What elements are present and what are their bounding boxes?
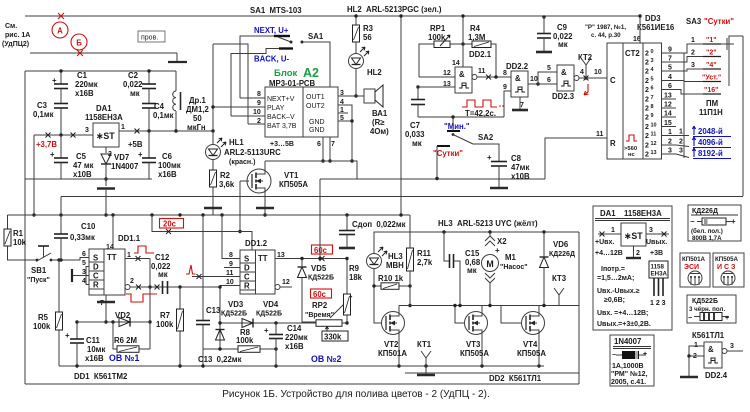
svg-text:C6: C6	[162, 152, 173, 161]
svg-text:220мк: 220мк	[285, 333, 308, 342]
svg-text:1158ЕН3А: 1158ЕН3А	[85, 113, 123, 122]
svg-text:6: 6	[651, 86, 654, 92]
svg-text:М1: М1	[505, 253, 516, 262]
info box DA1 1158EN3A	[593, 206, 672, 330]
svg-text:И С З: И С З	[717, 264, 736, 271]
svg-text:VD5: VD5	[311, 264, 327, 273]
svg-text:10k: 10k	[13, 238, 27, 247]
svg-text:1N4007: 1N4007	[111, 162, 138, 171]
speaker BA1	[364, 89, 375, 103]
svg-text:11: 11	[226, 270, 234, 277]
wire: power box bottom rail	[25, 178, 152, 180]
svg-text:2: 2	[645, 69, 649, 76]
svg-text:5: 5	[651, 77, 654, 83]
wire: top section bottom rail	[61, 196, 743, 198]
resistor R3	[353, 25, 360, 42]
svg-text:Рисунок 1Б. Устройство для пол: Рисунок 1Б. Устройство для полива цветов…	[222, 389, 489, 400]
svg-text:мк: мк	[467, 266, 477, 275]
svg-text:8: 8	[229, 252, 233, 259]
capacitor C15	[444, 232, 449, 261]
svg-text:3: 3	[691, 62, 695, 69]
svg-text:(бел. пол.): (бел. пол.)	[691, 228, 723, 235]
VT1 gate wire from DD1.1	[239, 181, 241, 232]
capacitor Cdop	[346, 215, 348, 231]
svg-text:NEXT, U+: NEXT, U+	[254, 26, 289, 35]
svg-text:Х2: Х2	[497, 237, 507, 246]
svg-text:SA2: SA2	[478, 133, 494, 142]
svg-text:КТ2: КТ2	[578, 53, 593, 62]
svg-text:1N4007: 1N4007	[614, 337, 641, 346]
svg-text:BAT 3,7В: BAT 3,7В	[267, 123, 297, 130]
svg-text:TT: TT	[107, 253, 117, 262]
capacitor C5	[60, 135, 62, 158]
svg-text:Б: Б	[76, 38, 82, 47]
svg-text:КП505А: КП505А	[460, 349, 489, 358]
svg-text:Iпотр.=: Iпотр.=	[601, 266, 625, 273]
wire: +3.7V down to 0V bus	[33, 135, 35, 215]
svg-text:DD1.2: DD1.2	[245, 239, 268, 248]
svg-text:См.: См.	[5, 23, 17, 30]
svg-text:+3В: +3В	[650, 250, 663, 257]
svg-text:2: 2	[645, 133, 649, 140]
svg-text:КП501А: КП501А	[378, 349, 407, 358]
svg-text:RP1: RP1	[430, 24, 446, 33]
svg-text:NEXT+V: NEXT+V	[267, 96, 295, 103]
DA1 pin2 lead	[105, 146, 107, 148]
svg-text:C3: C3	[37, 101, 48, 110]
svg-text:2048-й: 2048-й	[698, 127, 723, 136]
svg-text:"2": "2"	[706, 50, 717, 57]
capacitor C1	[60, 71, 62, 84]
svg-text:=1,5…2мА;: =1,5…2мА;	[597, 275, 634, 282]
svg-text:15: 15	[664, 120, 672, 127]
svg-text:2: 2	[645, 51, 649, 58]
svg-text:S: S	[93, 254, 98, 263]
svg-text:1 2 3: 1 2 3	[650, 300, 666, 307]
svg-text:3: 3	[730, 343, 734, 350]
svg-text:1: 1	[668, 129, 672, 136]
DD1.2 C input	[192, 276, 240, 278]
svg-text:2: 2	[645, 124, 649, 131]
svg-text:100k: 100k	[156, 320, 174, 329]
svg-text:9: 9	[229, 261, 233, 268]
svg-text:DA1: DA1	[96, 104, 112, 113]
resistor R6	[113, 322, 117, 349]
svg-text:3,6k: 3,6k	[219, 180, 235, 189]
svg-text:10: 10	[530, 76, 538, 83]
svg-text:BACK–V: BACK–V	[267, 114, 295, 121]
svg-text:C14: C14	[287, 324, 302, 333]
DD1.2 R input	[220, 285, 240, 287]
resistor R5	[58, 260, 60, 312]
ground symbol under VD7	[97, 187, 115, 190]
svg-text:12: 12	[282, 279, 290, 286]
svg-text:2: 2	[645, 78, 649, 85]
node A circled letter	[52, 22, 68, 38]
svg-text:+: +	[138, 150, 143, 159]
svg-text:C4: C4	[154, 102, 165, 111]
regulator DA1 box	[93, 123, 119, 147]
svg-text:х16В: х16В	[85, 354, 104, 363]
svg-text:мк: мк	[130, 89, 140, 98]
svg-text:330k: 330k	[324, 333, 342, 342]
svg-text:&: &	[459, 70, 465, 79]
svg-text:R6 2М: R6 2М	[114, 336, 137, 345]
svg-text:R3: R3	[363, 24, 374, 33]
svg-text:14: 14	[664, 111, 672, 118]
svg-text:9: 9	[257, 100, 261, 107]
svg-text:9: 9	[668, 47, 672, 54]
svg-text:2: 2	[679, 139, 683, 146]
svg-text:"4": "4"	[706, 62, 717, 69]
svg-text:VD7: VD7	[114, 153, 129, 162]
svg-text:7: 7	[331, 141, 335, 148]
svg-text:HL3 ARL-5213 UYC (жёлт): HL3 ARL-5213 UYC (жёлт)	[438, 219, 538, 228]
svg-text:12: 12	[664, 102, 672, 109]
DD1.2 S input wire	[222, 215, 240, 259]
svg-text:К561ИЕ16: К561ИЕ16	[637, 23, 675, 32]
resistor R10	[373, 269, 375, 287]
svg-text:КТ1: КТ1	[417, 340, 432, 349]
wire: feedback line to SA2 Min	[418, 116, 504, 118]
svg-text:R10 1k: R10 1k	[378, 274, 404, 283]
svg-text:C1: C1	[77, 71, 88, 80]
svg-text:1158ЕН3А: 1158ЕН3А	[624, 209, 662, 218]
svg-text:Uвых.=+3±0,2В.: Uвых.=+3±0,2В.	[597, 321, 651, 328]
svg-text:OUT1: OUT1	[306, 94, 325, 101]
switch SA1 throw BACK	[279, 47, 293, 49]
SA3 feed wires from counter	[676, 44, 703, 53]
svg-text:C15: C15	[465, 249, 480, 258]
svg-text:C10: C10	[81, 222, 96, 231]
svg-text:8: 8	[257, 91, 261, 98]
capacitor C11	[76, 322, 78, 339]
svg-text:R1: R1	[13, 229, 24, 238]
svg-text:3: 3	[649, 227, 653, 234]
svg-text:R11: R11	[417, 249, 432, 258]
wire: main 0V bus	[8, 214, 411, 216]
wire HL2 to OUT1 line	[355, 69, 357, 97]
SA3 wiper	[721, 43, 734, 45]
svg-text:6: 6	[547, 77, 551, 84]
info box KP505A pinout	[713, 253, 744, 287]
wire: VD2 node row	[77, 321, 150, 323]
svg-text:2: 2	[645, 97, 649, 104]
wire: DD1.2 out13 riser to DD3 reset line	[319, 179, 321, 259]
wire: power box left edge down to frame bottom	[24, 71, 26, 384]
value box 330k	[325, 327, 328, 332]
svg-text:10: 10	[651, 123, 657, 129]
svg-text:≥0,6В;: ≥0,6В;	[604, 297, 625, 304]
svg-text:1А,1000В: 1А,1000В	[612, 363, 644, 370]
svg-text:(R≥: (R≥	[372, 118, 385, 127]
svg-text:х10В: х10В	[511, 172, 530, 181]
svg-text:"Сутки": "Сутки"	[704, 17, 734, 26]
measure X on +3.7V rail	[46, 133, 51, 138]
svg-text:2005, с.41.: 2005, с.41.	[611, 379, 646, 386]
svg-text:6: 6	[668, 83, 672, 90]
svg-text:2: 2	[645, 115, 649, 122]
svg-text:5: 5	[82, 260, 86, 267]
svg-text:D: D	[93, 263, 99, 272]
svg-text:0,033: 0,033	[405, 130, 425, 139]
transistor VT3 (KP505A)	[465, 312, 488, 335]
red waveform T=42,2s	[462, 100, 497, 107]
svg-text:8: 8	[651, 104, 654, 110]
wire: bottom 0V rail	[59, 365, 544, 367]
svg-text:50: 50	[193, 114, 202, 123]
svg-text:4Ом): 4Ом)	[370, 127, 389, 136]
svg-text:DA1: DA1	[600, 209, 616, 218]
svg-text:7: 7	[668, 56, 672, 63]
svg-text:МВН: МВН	[386, 261, 404, 270]
svg-text:∗ST: ∗ST	[624, 231, 643, 241]
svg-text:х16В: х16В	[158, 170, 177, 179]
wire: power box top	[25, 70, 176, 72]
svg-text:PLAY: PLAY	[267, 105, 285, 112]
svg-text:"РМ" №12,: "РМ" №12,	[611, 370, 648, 378]
svg-text:DD2.2: DD2.2	[506, 62, 529, 71]
LED HL3	[374, 232, 410, 254]
svg-text:11: 11	[596, 131, 604, 138]
svg-text:мк: мк	[558, 40, 568, 49]
svg-text:х10В: х10В	[73, 170, 92, 179]
node B circled letter	[71, 34, 87, 50]
svg-text:C: C	[93, 272, 99, 281]
svg-text:20с: 20с	[163, 220, 177, 229]
svg-text:1158: 1158	[651, 264, 665, 271]
svg-text:+3…5В: +3…5В	[270, 141, 294, 148]
svg-text:"16": "16"	[704, 87, 718, 94]
svg-text:2: 2	[668, 139, 672, 146]
svg-text:DD3: DD3	[645, 14, 661, 23]
svg-text:SA1 MTS-103: SA1 MTS-103	[250, 6, 302, 15]
svg-text:+: +	[52, 76, 57, 85]
svg-text:220мк: 220мк	[75, 80, 98, 89]
inductor Dr1 choke on right edge	[175, 71, 177, 91]
wire: +5V rail from DA1 pin1	[119, 130, 213, 132]
svg-text:3 чёрн. пол.: 3 чёрн. пол.	[689, 306, 725, 313]
svg-text:2,7k: 2,7k	[417, 258, 433, 267]
svg-text:&: &	[561, 68, 567, 77]
capacitor C4	[142, 103, 156, 105]
svg-text:4096-й: 4096-й	[698, 138, 723, 147]
svg-text:х16В: х16В	[75, 89, 94, 98]
svg-text:C12: C12	[155, 253, 170, 262]
outer frame bottom	[25, 383, 579, 385]
svg-text:КД522Б: КД522Б	[256, 311, 282, 318]
svg-text:1: 1	[691, 37, 695, 44]
pump box bottom / right edge	[405, 372, 579, 374]
svg-text:М: М	[486, 259, 493, 269]
node A marker (red X)	[58, 13, 64, 19]
wire: HL1 feed / PLAY tie	[213, 44, 248, 124]
svg-text:C13 0,22мк: C13 0,22мк	[198, 355, 242, 364]
wire: line A (+3,7V feed from fig.1A)	[25, 15, 640, 17]
svg-text:8192-й: 8192-й	[698, 149, 723, 158]
svg-text:ДМ1,2: ДМ1,2	[186, 105, 210, 114]
gate DD2.3	[557, 65, 574, 91]
label: prov. (wire probe)	[138, 31, 165, 42]
node B marker (red X)	[77, 50, 83, 56]
diode VD2	[119, 318, 130, 327]
svg-text:C2: C2	[128, 71, 139, 80]
VT1 source to ground	[264, 193, 266, 208]
DA1 package drawing	[649, 261, 668, 278]
timing box 20s	[160, 219, 184, 229]
wire: +3.7V rail into DA1 pin3	[34, 134, 93, 136]
svg-text:КД522Б: КД522Б	[308, 275, 334, 282]
svg-text:10мк: 10мк	[87, 345, 105, 354]
capacitor C10	[60, 197, 62, 235]
svg-text:R4: R4	[470, 24, 481, 33]
svg-text:C: C	[610, 76, 616, 85]
capacitor C6	[148, 131, 150, 158]
svg-text:0: 0	[651, 49, 654, 55]
svg-text:BACK, U-: BACK, U-	[254, 55, 289, 64]
diode VD5	[301, 259, 303, 267]
svg-text:DD2.1: DD2.1	[469, 50, 492, 59]
svg-text:VD4: VD4	[263, 300, 279, 309]
svg-text:VT4: VT4	[523, 340, 538, 349]
svg-text:2: 2	[130, 278, 134, 285]
svg-text:+: +	[643, 351, 647, 358]
wire HL3 node to VT2 gate	[374, 286, 382, 323]
svg-text:D: D	[244, 264, 250, 273]
svg-text:2: 2	[691, 50, 695, 57]
svg-text:"Насос": "Насос"	[500, 264, 528, 271]
svg-text:R: R	[610, 139, 616, 148]
svg-text:1: 1	[127, 252, 131, 259]
svg-text:18k: 18k	[349, 273, 363, 282]
svg-text:2: 2	[645, 106, 649, 113]
switch SA1 common and blade	[290, 41, 293, 44]
svg-text:+4…12В: +4…12В	[595, 250, 623, 257]
wire: line B	[30, 52, 177, 54]
svg-text:6: 6	[82, 251, 86, 258]
switch SA1 throw NEXT	[274, 35, 290, 37]
DD1.2 D input stub	[224, 267, 240, 269]
svg-text:2: 2	[645, 87, 649, 94]
svg-text:11: 11	[651, 132, 657, 138]
svg-text:"Мин.": "Мин."	[444, 122, 470, 131]
svg-text:ЭСИ: ЭСИ	[684, 264, 699, 271]
svg-text:60с: 60с	[314, 246, 328, 255]
svg-text:VD3: VD3	[228, 300, 244, 309]
capacitor C8	[491, 161, 507, 163]
svg-text:SA1: SA1	[308, 32, 324, 41]
svg-text:6: 6	[317, 141, 321, 148]
svg-text:−: −	[688, 315, 692, 322]
svg-text:+: +	[264, 326, 269, 335]
svg-text:VD2: VD2	[115, 311, 131, 320]
svg-text:11: 11	[478, 68, 486, 75]
svg-text:КД226Д: КД226Д	[692, 208, 718, 215]
svg-text:8: 8	[503, 70, 507, 77]
svg-text:КП501А: КП501А	[682, 256, 706, 263]
resistor R7	[178, 285, 181, 288]
svg-text:(красн.): (красн.)	[229, 159, 255, 166]
svg-text:C9: C9	[557, 23, 568, 32]
svg-text:CT2: CT2	[625, 49, 640, 58]
svg-text:3: 3	[668, 148, 672, 155]
svg-text:13: 13	[277, 252, 285, 259]
R2 to ground	[212, 187, 214, 207]
transistor VT1 (KP505A)	[264, 161, 266, 170]
diode VD4 on row	[220, 322, 316, 324]
push button SB1	[36, 259, 39, 262]
svg-text:OUT2: OUT2	[306, 103, 325, 110]
wire: A-rail feed down mid sheet	[400, 16, 402, 215]
svg-text:5: 5	[547, 65, 551, 72]
potentiometer RP2	[316, 320, 342, 327]
svg-text:&: &	[515, 74, 521, 83]
svg-text:0,1мк: 0,1мк	[33, 110, 54, 119]
svg-text:100k: 100k	[33, 322, 51, 331]
diode VD7	[105, 147, 107, 153]
junction C2 top	[147, 69, 150, 72]
svg-text:ARL2-5113URC: ARL2-5113URC	[224, 148, 281, 157]
svg-text:C11: C11	[86, 336, 101, 345]
svg-text:GND: GND	[309, 127, 325, 134]
svg-text:с. 44, р.30: с. 44, р.30	[591, 32, 621, 39]
lower taps 2048/4096/8192	[676, 135, 689, 137]
DD2.1 output pin 11	[472, 75, 477, 80]
svg-text:100k: 100k	[236, 336, 254, 345]
svg-text:ОВ №2: ОВ №2	[311, 354, 341, 364]
svg-text:рис. 1А: рис. 1А	[5, 32, 30, 39]
svg-text:3: 3	[679, 148, 683, 155]
svg-text:R: R	[244, 282, 250, 291]
junction VD7 / box bottom	[104, 177, 107, 180]
svg-text:(УдПЦ2): (УдПЦ2)	[2, 41, 29, 48]
svg-text:КП505А: КП505А	[517, 349, 546, 358]
svg-text:VT3: VT3	[466, 340, 481, 349]
svg-text:12: 12	[443, 70, 451, 77]
svg-text:R2: R2	[220, 171, 231, 180]
svg-text:56: 56	[363, 33, 372, 42]
svg-text:+3,7В: +3,7В	[36, 140, 57, 149]
svg-text:7: 7	[651, 95, 654, 101]
DD2.2 output 10	[528, 83, 538, 85]
svg-text:Uвх. =+4…12В;: Uвх. =+4…12В;	[597, 310, 648, 317]
svg-text:Др.1: Др.1	[189, 96, 206, 105]
counter DD3 box	[607, 43, 662, 159]
svg-text:4: 4	[580, 69, 584, 76]
svg-text:C13: C13	[206, 306, 221, 315]
svg-text:3: 3	[82, 269, 86, 276]
svg-text:SB1: SB1	[31, 266, 47, 275]
svg-text:х16В: х16В	[285, 342, 304, 351]
svg-text:R9: R9	[349, 264, 360, 273]
svg-text:10: 10	[226, 279, 234, 286]
transistor VT4 (KP505A)	[522, 312, 545, 335]
DD2.3 output 4 to DD3 C input	[574, 76, 579, 81]
svg-text:Uвых.: Uвых.	[646, 239, 667, 246]
svg-text:&: &	[708, 345, 714, 354]
svg-text:13: 13	[664, 93, 672, 100]
wire: right edge down	[742, 36, 744, 196]
wire: gates row	[399, 305, 579, 307]
svg-text:R7: R7	[160, 311, 170, 320]
svg-text:1: 1	[121, 124, 125, 131]
svg-text:47 мк: 47 мк	[73, 161, 94, 170]
svg-text:C8: C8	[511, 154, 522, 163]
svg-text:R: R	[93, 281, 99, 290]
connector X2 upper	[489, 232, 491, 236]
svg-text:0,1мк: 0,1мк	[153, 111, 174, 120]
svg-text:5: 5	[668, 65, 672, 72]
